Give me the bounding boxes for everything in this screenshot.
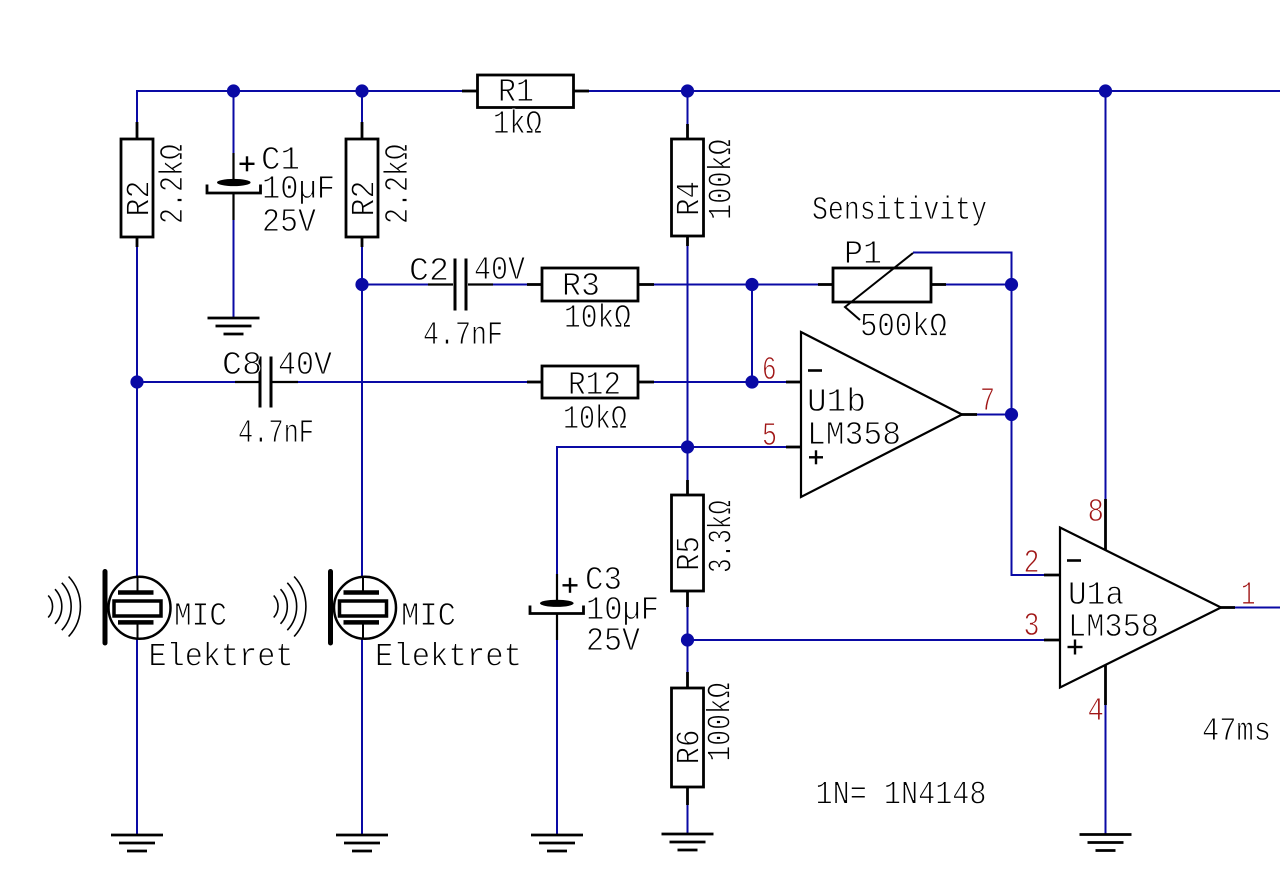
resistor R5 body <box>672 495 704 591</box>
resistor R12 leads <box>527 381 654 384</box>
resistor R1 leads <box>462 90 589 93</box>
wire top rail left segment (V+ net) <box>137 90 462 92</box>
wire R3 to P1 left (node 6 feed) <box>653 284 819 286</box>
svg-text:P1: P1 <box>844 236 882 273</box>
potentiometer P1 body <box>833 268 931 302</box>
wire C1 top lead net <box>233 91 235 154</box>
op-amp U1a plus input marker <box>1068 640 1083 655</box>
wire C3 top lead vertical <box>556 446 558 575</box>
label R4 value 100kΩ <box>704 139 741 220</box>
label R6 value 100kΩ <box>703 683 740 762</box>
wire left column top (to R2 mic1) <box>136 90 138 122</box>
capacitor C8 leads <box>235 381 298 383</box>
svg-text:2.2kΩ: 2.2kΩ <box>155 144 192 224</box>
svg-text:40V: 40V <box>278 347 332 384</box>
label R2 refdes (mic2) <box>347 181 384 217</box>
svg-text:4: 4 <box>1088 693 1105 730</box>
node junction top rail / C1 <box>227 84 240 97</box>
node junction R5-R6 divider / U1a pin3 <box>681 633 694 646</box>
capacitor C1 polarized plates <box>207 179 261 193</box>
svg-text:3: 3 <box>1024 608 1040 645</box>
capacitor C3 polarized plates <box>530 600 584 614</box>
svg-text:10kΩ: 10kΩ <box>563 401 627 438</box>
svg-text:4.7nF: 4.7nF <box>238 415 314 452</box>
ground U1a pin4 <box>1080 835 1132 851</box>
resistor R3 body <box>542 268 638 301</box>
svg-text:Elektret: Elektret <box>149 638 294 675</box>
node junction R3 out / P1 <box>745 278 758 291</box>
svg-text:4.7nF: 4.7nF <box>423 317 503 354</box>
ground MIC2 <box>336 835 388 851</box>
node junction top rail / U1a pin8 <box>1099 84 1112 97</box>
capacitor C8 plates <box>260 357 271 408</box>
svg-text:500kΩ: 500kΩ <box>860 309 947 346</box>
svg-text:C8: C8 <box>222 347 262 384</box>
capacitor C3 plus sign <box>563 578 578 593</box>
node junction P1 right / wiper <box>1005 278 1018 291</box>
svg-text:LM358: LM358 <box>807 417 901 454</box>
resistor R4 leads <box>686 124 689 246</box>
label R5 refdes <box>672 536 709 571</box>
svg-text:LM358: LM358 <box>1068 609 1159 646</box>
wire U1b output to feedback column <box>977 414 1012 416</box>
wire P1 wiper horizontal <box>913 252 1013 254</box>
svg-text:MIC: MIC <box>401 598 456 635</box>
resistor R2 (mic2) body <box>346 139 378 237</box>
resistor R1 body <box>478 75 574 108</box>
label R2 refdes (mic1) <box>122 181 159 217</box>
svg-text:MIC: MIC <box>174 598 227 635</box>
resistor R3 leads <box>527 283 654 286</box>
wire R12 to U1b pin6 <box>653 381 787 383</box>
label R4 refdes <box>672 181 709 216</box>
wire mic1 column R2 to MIC1 <box>136 246 138 577</box>
svg-text:40V: 40V <box>474 252 525 289</box>
capacitor C2 leads <box>428 283 493 285</box>
wire R4 bottom down to R5 (crosses rows) <box>687 245 689 481</box>
node junction U1b output / feedback <box>1005 408 1018 421</box>
potentiometer P1 wiper arrow <box>845 253 913 320</box>
wire R5 to R6 segment <box>687 606 689 673</box>
wire feedback column P1 wiper to U1b output to U1a pin2 <box>1011 253 1013 577</box>
op-amp U1a pin leads <box>1044 499 1235 705</box>
wire U1a output pin1 to right edge <box>1235 607 1280 609</box>
svg-text:R2: R2 <box>347 181 384 217</box>
svg-text:3.3kΩ: 3.3kΩ <box>704 500 741 573</box>
wire C3 node to R4 column (U1b pin5 net) <box>557 446 689 448</box>
resistor R2 (mic1) leads <box>136 122 139 247</box>
wire R5-R6 divider node to U1a pin3 <box>688 639 1046 641</box>
capacitor C1 leads <box>232 153 234 220</box>
potentiometer P1 leads <box>818 283 946 286</box>
wire to U1a pin2 horizontal <box>1012 574 1046 576</box>
svg-text:6: 6 <box>762 352 777 389</box>
label R2 value 2.2kΩ (mic2) <box>380 144 417 224</box>
wire mic2 node to C2 <box>362 284 428 286</box>
capacitor C3 leads <box>556 574 558 640</box>
op-amp U1b minus input marker <box>808 369 822 372</box>
node junction mic2 / C2 <box>355 278 368 291</box>
resistor R2 (mic2) leads <box>361 122 364 247</box>
resistor R2 (mic1) body <box>121 139 153 237</box>
svg-text:Sensitivity: Sensitivity <box>812 192 987 229</box>
svg-text:100kΩ: 100kΩ <box>703 683 740 762</box>
wire R4 column top <box>687 91 689 124</box>
wire C1 bottom to ground <box>233 219 235 319</box>
svg-text:5: 5 <box>762 418 777 455</box>
ground R6 <box>662 834 714 850</box>
svg-text:25V: 25V <box>586 623 640 660</box>
svg-text:1N= 1N4148: 1N= 1N4148 <box>816 777 987 814</box>
wire mic2 bottom to ground <box>361 638 363 835</box>
svg-text:R2: R2 <box>122 181 159 217</box>
svg-text:U1b: U1b <box>807 384 866 421</box>
svg-text:1kΩ: 1kΩ <box>493 106 542 143</box>
label R5 value 3.3kΩ <box>704 500 741 573</box>
wire U1a pin4 to ground <box>1105 705 1107 835</box>
svg-text:10kΩ: 10kΩ <box>564 300 631 337</box>
node junction top rail / R4 <box>681 84 694 97</box>
svg-text:25V: 25V <box>262 204 316 241</box>
op-amp U1b triangle <box>801 332 962 497</box>
resistor R6 body <box>672 688 704 787</box>
op-amp U1b plus input marker <box>809 450 823 464</box>
microphone MIC2 (electret) <box>274 572 396 644</box>
resistor R4 body <box>672 139 704 236</box>
svg-text:C2: C2 <box>409 253 449 290</box>
ground C3 <box>531 835 583 851</box>
capacitor C2 plates <box>455 259 466 311</box>
svg-text:100kΩ: 100kΩ <box>704 139 741 220</box>
wire C3 bottom to ground <box>556 639 558 835</box>
svg-text:47ms: 47ms <box>1202 713 1271 750</box>
wire P1 right terminal to wiper node <box>946 284 1012 286</box>
svg-text:2: 2 <box>1024 545 1040 582</box>
microphone MIC1 (electret) <box>48 572 170 644</box>
wire top rail right segment (V+ net) <box>589 90 1280 92</box>
svg-text:10µF: 10µF <box>262 171 335 208</box>
svg-text:R12: R12 <box>568 367 621 404</box>
wire C2 to R3 <box>492 284 528 286</box>
wire mic2 column top (to R2 mic2) <box>361 91 363 122</box>
op-amp U1a minus input marker <box>1067 559 1081 562</box>
svg-text:Elektret: Elektret <box>375 638 522 675</box>
wire mic2 column R2 to MIC2, crosses C8 row <box>361 246 363 577</box>
svg-text:1: 1 <box>1241 577 1256 614</box>
svg-text:8: 8 <box>1088 494 1105 531</box>
ground C1 <box>208 318 260 334</box>
label R6 refdes <box>672 730 709 765</box>
node junction R12 / U1b pin6 <box>745 375 758 388</box>
svg-text:2.2kΩ: 2.2kΩ <box>380 144 417 224</box>
resistor R6 leads <box>686 672 689 805</box>
wire C8 to R12 <box>297 381 528 383</box>
resistor R5 leads <box>686 480 689 607</box>
resistor R12 body <box>542 366 638 398</box>
wire node to U1b pin5 <box>688 446 788 448</box>
wire mic1 node to C8 <box>137 381 235 383</box>
op-amp U1a triangle <box>1060 528 1221 688</box>
node junction mic1 / C8 <box>130 375 143 388</box>
capacitor C1 plus sign <box>240 156 255 171</box>
wire V+ rail down to U1a pin8 <box>1105 90 1107 499</box>
label R2 value 2.2kΩ (mic1) <box>155 144 192 224</box>
wire R3 output down to U1b pin6 node <box>751 285 753 384</box>
op-amp U1b pin leads <box>786 382 977 447</box>
wire R6 bottom to ground <box>687 804 689 835</box>
node junction top rail / R2 mic2 <box>355 84 368 97</box>
svg-text:7: 7 <box>980 383 995 420</box>
ground MIC1 <box>111 835 163 851</box>
wire mic1 bottom to ground <box>136 638 138 835</box>
node junction R4-R5 / C3 / U1b pin5 <box>681 440 694 453</box>
